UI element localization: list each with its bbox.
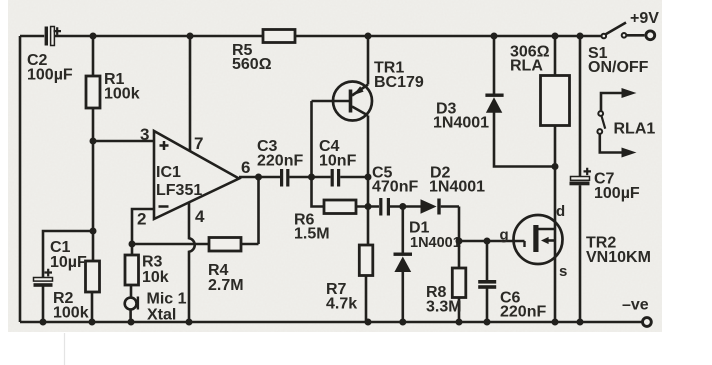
wire C3 to C4: [289, 176, 330, 179]
svg-text:1N4001: 1N4001: [433, 115, 489, 132]
capacitor C7: [570, 168, 640, 202]
svg-text:3.3M: 3.3M: [426, 299, 462, 316]
svg-text:BC179: BC179: [374, 74, 424, 91]
relay contacts RLA1: [597, 88, 655, 158]
svg-text:220nF: 220nF: [257, 153, 303, 170]
svg-text:d: d: [556, 203, 565, 220]
node bias divider / pin3: [90, 138, 97, 145]
node C3/C4/TR1 base: [308, 174, 315, 181]
svg-text:100k: 100k: [53, 305, 89, 322]
diode D2 1N4001: [421, 165, 486, 215]
node output/R4: [255, 174, 262, 181]
wire op-amp pin 4 to -ve rail (hops over feedback wire): [189, 203, 195, 323]
terminal +9V: [630, 10, 659, 40]
resistor R5: [232, 30, 295, 74]
transistor TR2 VN10KM (MOSFET): [514, 215, 651, 266]
svg-text:1.5M: 1.5M: [294, 226, 330, 243]
relay coil RLA 306ohm: [510, 44, 570, 126]
capacitor C2: [27, 27, 73, 84]
wire tap down to R6: [312, 177, 325, 207]
svg-text:2.7M: 2.7M: [208, 277, 244, 294]
svg-text:–ve: –ve: [622, 297, 649, 314]
resistor R7: [326, 207, 373, 323]
capacitor C1: [34, 231, 94, 322]
wire op-amp pin 3: [93, 140, 154, 143]
node C5/D1/D2: [399, 203, 406, 210]
svg-text:IC1: IC1: [156, 164, 181, 181]
svg-text:1N4001: 1N4001: [429, 179, 485, 196]
svg-text:10µF: 10µF: [50, 254, 87, 271]
svg-text:4.7k: 4.7k: [326, 296, 357, 313]
capacitor C5: [372, 165, 418, 216]
terminal -ve: [622, 297, 651, 327]
resistor R1: [86, 36, 140, 141]
svg-text:100µF: 100µF: [27, 67, 73, 84]
svg-text:ON/OFF: ON/OFF: [588, 59, 649, 76]
svg-text:3: 3: [140, 125, 149, 144]
svg-text:RLA1: RLA1: [614, 121, 656, 138]
resistor R2: [53, 261, 100, 322]
wire C7 branch: [579, 36, 582, 322]
transistor TR1 BC179: [312, 60, 424, 121]
wire TR1 base down to signal line: [310, 101, 313, 177]
svg-text:LF351: LF351: [156, 182, 202, 199]
wire left rail: [19, 36, 22, 322]
node R6/C5/R7: [365, 203, 372, 210]
svg-text:1N4001: 1N4001: [410, 235, 461, 251]
svg-text:100k: 100k: [104, 86, 140, 103]
node C4/C5/TR1 collector: [365, 174, 372, 181]
resistor R4 feedback: [132, 177, 259, 294]
svg-text:100µF: 100µF: [594, 185, 640, 202]
svg-text:220nF: 220nF: [500, 304, 546, 321]
svg-text:g: g: [500, 227, 509, 244]
svg-text:s: s: [559, 263, 567, 280]
svg-text:VN10KM: VN10KM: [586, 249, 651, 266]
wire op-amp pin 7 to rail: [189, 36, 192, 151]
svg-text:D1: D1: [409, 220, 430, 237]
svg-text:7: 7: [194, 134, 203, 153]
wire D2 to gate node: [458, 207, 461, 242]
resistor R3: [125, 244, 169, 297]
wire op-amp pin 2: [132, 209, 154, 244]
svg-text:10k: 10k: [142, 269, 169, 286]
svg-text:560Ω: 560Ω: [232, 56, 272, 73]
svg-text:+9V: +9V: [630, 10, 659, 27]
capacitor C6: [478, 241, 546, 322]
node pin2/R3/R4: [129, 241, 136, 248]
wire C5 to D1 node: [390, 205, 421, 208]
wire relay/drain/source vertical: [552, 36, 559, 322]
wire TR1 collector down: [367, 116, 370, 178]
svg-text:RLA: RLA: [510, 58, 543, 75]
wire TR1 emitter to rail: [367, 36, 370, 85]
microphone Mic 1 Xtal: [125, 291, 187, 324]
wire bias node down to R2: [90, 141, 97, 261]
svg-text:6: 6: [241, 158, 250, 177]
wire +9V top rail: [20, 33, 602, 40]
diode D1 1N4001: [394, 207, 461, 323]
node gate/R8: [456, 238, 463, 245]
wire C4 to node: [340, 176, 368, 179]
wire -ve bottom rail: [20, 319, 642, 326]
resistor R8: [426, 241, 466, 322]
wire gate line: [459, 240, 525, 243]
wire C4/C5 node down: [367, 177, 370, 207]
capacitor C4: [319, 138, 357, 187]
svg-text:4: 4: [195, 207, 205, 226]
svg-text:10nF: 10nF: [319, 153, 357, 170]
wire op-amp output: [239, 176, 280, 179]
node C6 tap: [484, 238, 491, 245]
svg-text:470nF: 470nF: [372, 179, 418, 196]
op-amp U1 IC1 LF351: [154, 131, 239, 219]
svg-text:Mic 1: Mic 1: [147, 291, 187, 308]
svg-text:Xtal: Xtal: [147, 307, 176, 324]
svg-text:R3: R3: [142, 254, 163, 271]
resistor R6: [294, 200, 379, 243]
switch S1 ON/OFF: [588, 23, 649, 77]
svg-text:2: 2: [137, 210, 146, 229]
diode D3 1N4001: [433, 36, 555, 167]
capacitor C3: [257, 138, 303, 187]
